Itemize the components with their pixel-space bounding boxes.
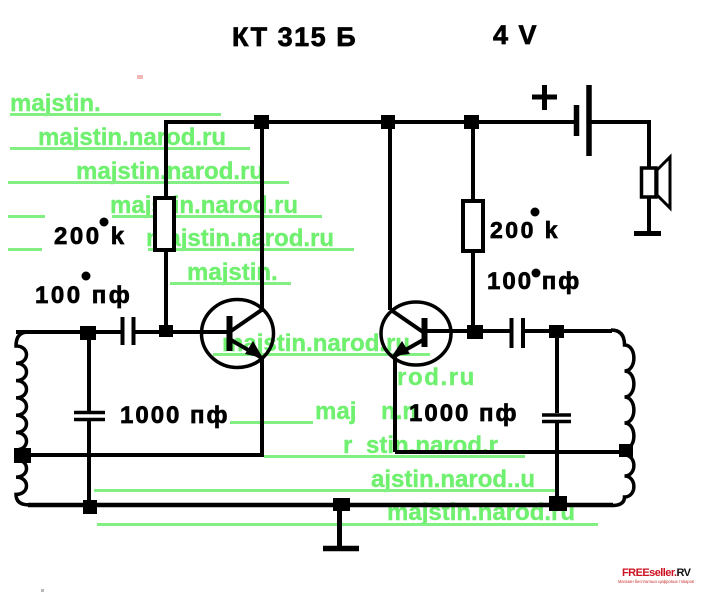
svg-text:FREEseller.RV: FREEseller.RV: [622, 567, 692, 579]
svg-text:majstin.narod.ru: majstin.narod.ru: [76, 158, 264, 185]
wire: R2 top branch: [471, 120, 475, 202]
node: left coil tap: [14, 448, 31, 463]
svg-text:4 V: 4 V: [493, 20, 538, 50]
watermark row 7: [213, 330, 430, 357]
inductor L1 left coil: [16, 332, 29, 505]
transistor Q1 collector diagonal: [231, 309, 263, 331]
wire: bottom rail: [28, 503, 613, 508]
svg-text:majstin.: majstin.: [187, 259, 278, 286]
R1 label dot: [100, 218, 109, 227]
wire: top supply rail: [164, 120, 577, 124]
svg-text:rod.ru: rod.ru: [397, 364, 476, 391]
transistor Q2 base bar: [422, 318, 428, 347]
C2 label dot: [532, 269, 541, 278]
watermark row 1: [10, 90, 221, 117]
transistor Q1 circle: [202, 300, 274, 368]
wire: battery to speaker: [591, 122, 649, 169]
watermark row 2: [10, 124, 250, 151]
svg-text:100 пф: 100 пф: [35, 282, 132, 309]
R2 label dot: [531, 208, 540, 217]
wire: middle left feedback: [16, 453, 264, 457]
svg-text:majstin.: majstin.: [10, 90, 101, 117]
svg-text:stin.narod.r: stin.narod.r: [366, 432, 498, 459]
watermark row 9 fragments: [230, 398, 417, 425]
svg-text:majstin.narod.ru: majstin.narod.ru: [38, 124, 226, 151]
FREEseller.RV logo: [618, 567, 694, 584]
wire: R2 bottom branch: [471, 251, 475, 332]
transistor Q1 base bar: [227, 316, 233, 351]
svg-text:maj: maj: [315, 398, 356, 425]
svg-text:200 k: 200 k: [54, 223, 127, 250]
node: R1 base junction: [159, 325, 173, 337]
wire: Q2 emitter drop: [393, 356, 397, 452]
capacitor C4 1000pf plates: [542, 413, 571, 417]
node: top rail R2: [464, 115, 479, 129]
wire: Q1 emitter drop: [260, 357, 264, 455]
speck: [41, 589, 44, 592]
resistor R1 200k: [155, 198, 174, 250]
battery plus sign: [532, 85, 557, 110]
wire: T1 collector drop: [260, 120, 264, 312]
wire: left wire to C1: [16, 330, 121, 334]
speaker LS1: [642, 168, 657, 197]
capacitor C3 1000pf plates: [74, 411, 105, 415]
battery B1 plates: [574, 105, 580, 136]
svg-text:r: r: [343, 432, 352, 459]
svg-text:majstin.narod.ru: majstin.narod.ru: [110, 192, 298, 219]
watermark row 5: [8, 225, 354, 252]
watermark row 10 fragments: [264, 432, 525, 459]
wire: T2 collector drop: [388, 120, 392, 310]
watermark row 11: [94, 466, 558, 493]
inductor L2 right coil: [611, 330, 634, 506]
wire: C4 top branch: [555, 331, 559, 413]
wire: R1 bottom branch: [164, 250, 168, 332]
capacitor C1 100pf plates: [121, 317, 125, 345]
capacitor C2 100pf plates: [510, 318, 514, 348]
transistor Q1 emitter arrow: [245, 341, 263, 358]
transistor Q2 emitter diagonal: [393, 340, 423, 357]
svg-text:КТ 315 Б: КТ 315 Б: [232, 22, 357, 52]
wire: Q2 base to C2: [425, 329, 510, 333]
wire: C2 to right coil: [525, 329, 612, 333]
resistor R2 200k: [463, 201, 483, 251]
svg-text:200 k: 200 k: [490, 217, 560, 243]
svg-text:ajstin.narod..u: ajstin.narod..u: [371, 466, 535, 493]
watermark row 8 fragment: [397, 364, 476, 391]
node: top rail T1: [254, 115, 269, 129]
watermark row 12: [97, 499, 598, 526]
node: left coil top wire: [80, 326, 96, 340]
svg-text:Магазин бесплатных цифровых то: Магазин бесплатных цифровых товаров: [618, 579, 694, 584]
wire: middle right feedback: [395, 450, 624, 454]
node: bottom right C4: [549, 496, 567, 511]
speaker terminal bar: [634, 231, 661, 236]
node: top rail T2: [381, 115, 395, 129]
wire: R1 top branch: [164, 120, 168, 200]
node: right top junction: [549, 325, 564, 338]
wire: C3 top branch: [87, 332, 91, 411]
ground symbol: [337, 505, 342, 546]
transistor Q2 emitter arrow: [392, 341, 410, 356]
node: bottom left C3: [83, 500, 97, 514]
wire: C3 bottom branch: [87, 421, 91, 506]
svg-text:1000 пф: 1000 пф: [120, 402, 230, 429]
wire: speaker bottom lead: [647, 197, 651, 232]
wire: C1 to T1 base: [135, 330, 227, 334]
watermark row 6: [170, 259, 291, 286]
node: right coil tap: [619, 444, 633, 457]
wire: C4 bottom branch: [555, 423, 559, 506]
watermark row 4: [8, 192, 322, 219]
node: R2 base junction: [467, 325, 483, 339]
transistor Q1 emitter diagonal: [231, 340, 262, 358]
pink speck: [137, 75, 143, 79]
node: bottom ground: [333, 498, 350, 511]
transistor Q2 collector diagonal: [391, 310, 423, 332]
C1 label dot: [82, 272, 91, 281]
svg-text:1000 пф: 1000 пф: [409, 400, 519, 427]
watermark row 3: [8, 158, 289, 185]
transistor Q2 circle: [381, 302, 451, 365]
